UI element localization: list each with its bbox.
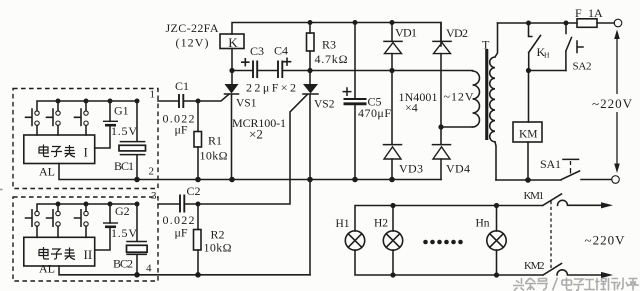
- svg-text:II: II: [84, 247, 93, 262]
- svg-text:VD3: VD3: [399, 162, 423, 176]
- svg-text:VD1: VD1: [395, 26, 417, 40]
- svg-text:VS1: VS1: [236, 98, 257, 110]
- svg-text:H: H: [544, 51, 550, 60]
- svg-text:JZC-22FA: JZC-22FA: [166, 21, 219, 35]
- svg-text:(12V): (12V): [176, 36, 209, 50]
- svg-text:4: 4: [146, 263, 152, 275]
- svg-text:BC2: BC2: [113, 257, 133, 271]
- svg-text:G2: G2: [115, 204, 130, 218]
- svg-text:10kΩ: 10kΩ: [204, 241, 232, 255]
- svg-text:VD4: VD4: [446, 162, 470, 176]
- svg-text:C3: C3: [250, 44, 264, 58]
- svg-text:~12V: ~12V: [444, 90, 474, 104]
- svg-text:KM2: KM2: [524, 260, 545, 272]
- svg-text:3: 3: [151, 190, 157, 202]
- svg-text:10kΩ: 10kΩ: [200, 149, 228, 163]
- svg-text:C2: C2: [187, 184, 201, 198]
- svg-text:R2: R2: [211, 228, 225, 242]
- svg-text:H2: H2: [374, 218, 388, 230]
- svg-text:1.5V: 1.5V: [111, 226, 137, 240]
- svg-text:SA2: SA2: [573, 61, 592, 73]
- svg-text:1.5V: 1.5V: [111, 124, 137, 138]
- svg-text:AL: AL: [39, 165, 55, 179]
- svg-text:VD2: VD2: [446, 26, 468, 40]
- svg-text:Hn: Hn: [476, 218, 490, 230]
- svg-text:4.7kΩ: 4.7kΩ: [315, 52, 348, 66]
- svg-text:AL: AL: [39, 262, 55, 276]
- svg-text:T: T: [482, 38, 490, 52]
- svg-text:KM: KM: [519, 129, 538, 141]
- svg-text:R1: R1: [208, 134, 222, 148]
- svg-text:K: K: [228, 35, 238, 50]
- svg-text:G1: G1: [114, 104, 129, 118]
- svg-text:2: 2: [149, 166, 155, 178]
- svg-text:H1: H1: [336, 218, 350, 230]
- svg-text:KM1: KM1: [524, 190, 545, 202]
- svg-text:μF: μF: [175, 226, 188, 240]
- svg-text:1A: 1A: [588, 6, 603, 20]
- svg-text:C4: C4: [274, 44, 288, 58]
- svg-text:×2: ×2: [249, 127, 263, 142]
- svg-text:~220V: ~220V: [585, 233, 626, 248]
- svg-text:×4: ×4: [405, 101, 418, 115]
- svg-text:470μF: 470μF: [358, 106, 391, 120]
- svg-text:1: 1: [150, 89, 156, 101]
- svg-text:I: I: [84, 145, 88, 160]
- svg-text:F: F: [575, 6, 582, 20]
- svg-text:BC1: BC1: [114, 159, 134, 173]
- svg-text:R3: R3: [322, 38, 336, 52]
- svg-text:μF: μF: [175, 123, 188, 137]
- svg-text:C1: C1: [175, 79, 189, 93]
- svg-text:VS2: VS2: [314, 99, 335, 111]
- svg-text:SA1: SA1: [540, 157, 561, 171]
- svg-text:~220V: ~220V: [592, 96, 633, 111]
